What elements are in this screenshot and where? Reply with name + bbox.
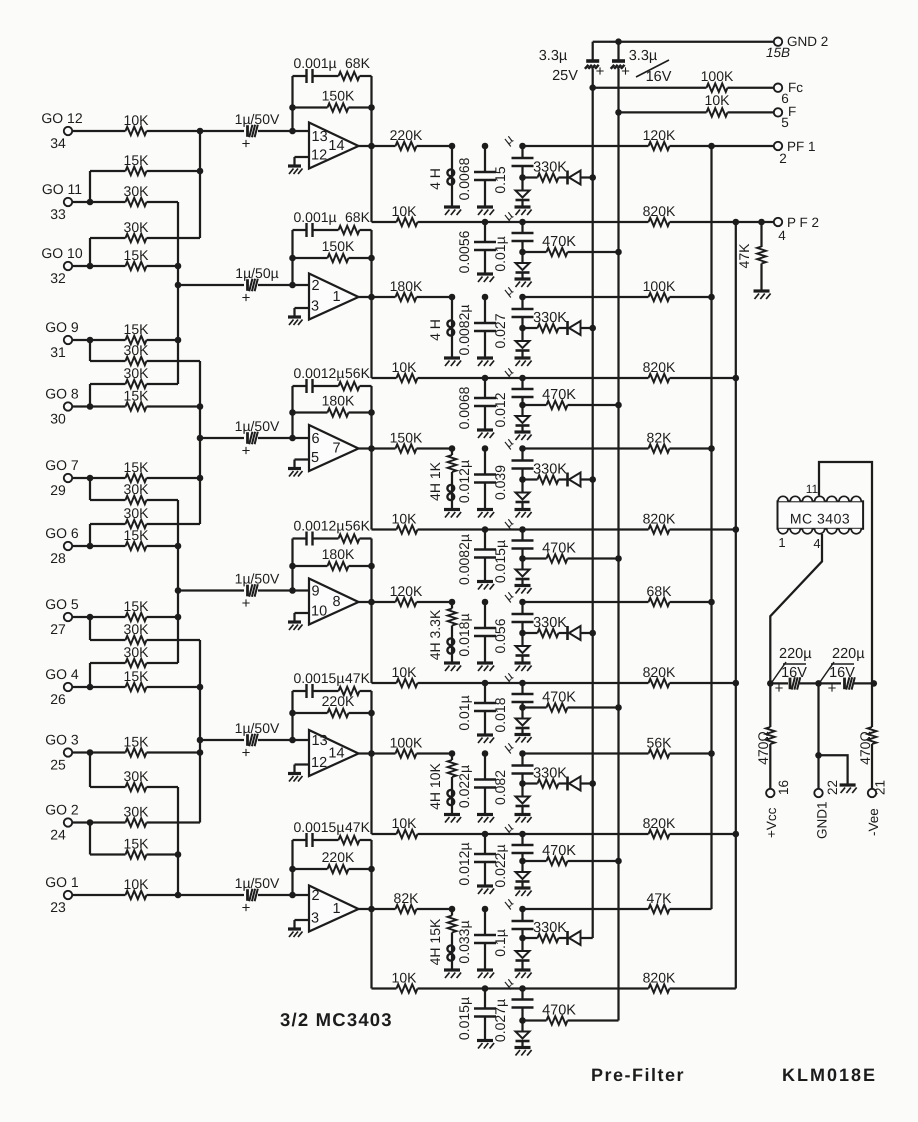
svg-text:33: 33 (50, 206, 66, 222)
wire stage 5 input row (200, 739, 244, 741)
svg-text:25: 25 (50, 757, 66, 773)
feedback loop left wire stage 2 (291, 230, 293, 285)
ground (shunt cap mid row 6) (477, 1041, 494, 1049)
resistor 330K stage 1 (523, 160, 568, 182)
svg-text:4H 10K: 4H 10K (427, 762, 443, 809)
svg-text:GO 5: GO 5 (45, 596, 79, 612)
diode (330K branch) stage 1 (559, 171, 593, 185)
resistor 470Ω (-Vee) (857, 683, 876, 789)
wire GO 5 to junction (72, 616, 90, 618)
inductor 4H branch stage 6 (427, 906, 456, 970)
wire cap to op-amp stage 1 (258, 128, 308, 135)
wire jog GO 3 to 30K row (90, 753, 126, 788)
feedback loop right wire stage 4 (370, 539, 372, 603)
wire stage 6 row to PF1 bus (523, 908, 649, 910)
junction 470K bus mid row 3 (615, 555, 622, 562)
ground (inductor stage 4) (444, 663, 461, 671)
wire op-amp output stage 3 (359, 445, 396, 452)
input terminal GO 4 (pin 26) (45, 666, 79, 707)
input terminal GO 10 (pin 32) (41, 245, 82, 286)
input terminal GO 8 (pin 30) (45, 386, 79, 427)
wire resistor to bus (147, 130, 201, 132)
feedback loop left wire stage 1 (291, 76, 293, 131)
svg-text:150K: 150K (390, 430, 423, 446)
capacitor 0.082 series stage 5 (492, 738, 534, 805)
input terminal GO 1 (pin 23) (45, 874, 79, 915)
wire jog GO 10 to 30K row (90, 238, 126, 266)
wire jog GO 11 to 15K row (90, 171, 126, 202)
svg-text:0.0082µ: 0.0082µ (456, 534, 472, 585)
ground (shunt cap mid row 2) (477, 430, 494, 438)
resistor 30K (GO 2) (124, 804, 150, 827)
junction stage 5 PF1 bus (708, 750, 715, 757)
ground (series branch mid row 6) (515, 1048, 532, 1056)
resistor 82K stage 6 output (394, 890, 452, 913)
wire 15K to bus (147, 545, 179, 547)
junction node GO 8 (87, 403, 94, 410)
resistor 30K (GO 8) (124, 365, 150, 388)
svg-text:47K: 47K (345, 819, 371, 835)
terminal +Vcc (pin 16) (764, 780, 791, 838)
wire op-amp output stage 1 (359, 143, 396, 150)
wire GO 2 to 30K (90, 821, 126, 823)
svg-text:0.018: 0.018 (492, 697, 508, 732)
svg-text:0.018µ: 0.018µ (456, 613, 472, 656)
capacitor 0.018 series mid row 4 (492, 668, 534, 733)
svg-text:0.012µ: 0.012µ (456, 460, 472, 503)
wire GO 10 to junction (72, 265, 90, 267)
ground (inductor stage 1) (444, 207, 461, 215)
svg-text:30K: 30K (124, 481, 150, 497)
wire GO 10 to 15K (90, 265, 126, 267)
svg-text:1µ/50V: 1µ/50V (235, 571, 280, 587)
wire jog GO 5 to 30K row (90, 617, 126, 640)
svg-text:0.0068: 0.0068 (456, 386, 472, 429)
svg-text:0.001µ: 0.001µ (294, 209, 337, 225)
diode (mid row 1) (516, 252, 530, 278)
capacitor 0.0056 shunt mid row 1 (456, 219, 496, 274)
svg-text:180K: 180K (322, 546, 355, 562)
resistor 330K stage 6 (523, 920, 568, 942)
input terminal GO 2 (pin 24) (45, 802, 79, 843)
junction node GO 3 (87, 749, 94, 756)
wire 30K to bus (147, 383, 179, 385)
wire pin 11 to -Vee rail (819, 462, 872, 683)
feedback resistor 68K stage 2 (339, 209, 372, 234)
wire op-amp 4 output to mid row (372, 602, 397, 683)
ground (shunt cap stage 6) (477, 970, 494, 978)
capacitor 0.01µ shunt mid row 4 (456, 680, 496, 735)
svg-text:GO 2: GO 2 (45, 802, 79, 818)
svg-text:0.1µ: 0.1µ (492, 929, 508, 957)
svg-text:12: 12 (311, 148, 327, 164)
svg-text:47K: 47K (647, 890, 673, 906)
svg-text:15K: 15K (124, 527, 150, 543)
diode (shunt branch) stage 5 (516, 784, 530, 815)
svg-text:0.027µ: 0.027µ (492, 999, 508, 1042)
junction mid row 5 PF2 bus (733, 831, 740, 838)
feedback capacitor 0.0015µ stage 6 (293, 819, 345, 847)
ground (inductor stage 6) (444, 970, 461, 978)
input terminal GO 5 (pin 27) (45, 596, 79, 637)
svg-text:0.01µ: 0.01µ (456, 695, 472, 730)
electrolytic capacitor 1µ/50V stage 5 (235, 720, 280, 762)
svg-text:8: 8 (332, 594, 340, 610)
svg-text:0.15: 0.15 (492, 166, 508, 193)
wire GO 1 to resistor (72, 894, 126, 896)
diode (330K branch) stage 2 (559, 321, 593, 335)
ground (series branch stage 5) (515, 815, 532, 823)
wire cap to op-amp stage 5 (258, 737, 308, 744)
svg-text:330K: 330K (533, 615, 567, 631)
junction 470K bus mid row 4 (615, 704, 622, 711)
ground (op-amp stage 5) (288, 774, 303, 782)
resistor 15K (GO 10) (124, 247, 150, 270)
diode (shunt branch) stage 1 (516, 178, 530, 208)
svg-text:30K: 30K (124, 621, 150, 637)
resistor 820K mid row 6 (643, 970, 736, 993)
svg-text:120K: 120K (643, 127, 676, 143)
stage 3 mixing bus (197, 361, 204, 524)
op-amp + input ground stub stage 2 (295, 308, 310, 316)
svg-text:16V: 16V (781, 665, 807, 681)
junction 470K bus mid row 2 (615, 402, 622, 409)
resistor 330K stage 4 (523, 615, 568, 637)
svg-text:4 H: 4 H (427, 319, 443, 341)
op-amp stage 3 (pins 6/5/7) (309, 425, 359, 471)
electrolytic capacitor 1µ/50µ stage 2 (235, 265, 278, 307)
svg-text:3: 3 (311, 299, 319, 315)
wire stage 2 row to PF1 bus (523, 296, 649, 298)
junction mid row 4 PF2 bus (733, 680, 740, 687)
feedback resistor 68K stage 1 (339, 55, 372, 80)
svg-text:27: 27 (50, 621, 66, 637)
svg-text:120K: 120K (390, 583, 423, 599)
feedback resistor 56K stage 3 (339, 365, 372, 390)
resistor 330K stage 2 (523, 310, 568, 332)
svg-text:PF 1: PF 1 (787, 139, 816, 154)
wire rail mid (799, 680, 841, 687)
wire jog GO 7 to 30K row (90, 478, 126, 500)
pin 1 label (778, 535, 785, 550)
svg-text:30K: 30K (124, 768, 150, 784)
svg-text:0.0015µ: 0.0015µ (294, 670, 345, 686)
capacitor 0.027µ series mid row 6 (492, 974, 534, 1042)
wire stage 3 row to PF1 bus (523, 447, 649, 449)
wire stage 6 input row (178, 894, 244, 896)
resistor 30K (GO 4) (124, 644, 150, 667)
svg-text:0.022µ: 0.022µ (456, 765, 472, 808)
wire op-amp output stage 4 (359, 599, 396, 606)
ground (series branch stage 2) (515, 358, 532, 366)
ground (shunt cap mid row 4) (477, 735, 494, 743)
capacitor 0.022µ shunt stage 5 (456, 750, 496, 814)
op-amp stage 4 (pins 9/10/8) (309, 579, 359, 625)
junction 470K bus mid row 1 (615, 249, 622, 256)
wire GO 5 to 15K (90, 616, 126, 618)
ground (series branch mid row 3) (515, 586, 532, 594)
resistor 10K (GO 1) (124, 876, 150, 899)
svg-text:0.039: 0.039 (492, 465, 508, 500)
svg-text:GO 10: GO 10 (41, 245, 82, 261)
svg-text:30K: 30K (124, 342, 150, 358)
svg-text:GO 9: GO 9 (45, 319, 79, 335)
ground (series branch mid row 1) (515, 279, 532, 287)
diode (330K branch) stage 4 (559, 626, 593, 640)
svg-text:820K: 820K (643, 664, 676, 680)
svg-text:10K: 10K (124, 876, 150, 892)
input terminal GO 9 (pin 31) (45, 319, 79, 360)
svg-text:0.027: 0.027 (492, 313, 508, 348)
svg-text:9: 9 (312, 584, 320, 600)
terminal GND1 (pin 22) (814, 780, 840, 839)
feedback resistor 150K stage 2 (289, 238, 375, 262)
capacitor 0.039 series stage 3 (492, 434, 534, 500)
feedback loop left wire stage 4 (291, 539, 293, 591)
resistor 82K stage 3 to PF1 (647, 430, 712, 453)
feedback resistor 47K stage 5 (339, 670, 372, 695)
wire 15K to bus (147, 686, 201, 688)
capacitor 0.022µ series mid row 5 (492, 819, 534, 888)
svg-text:1µ/50V: 1µ/50V (235, 875, 280, 891)
capacitor 220µ/16V (Vee) (820, 646, 865, 697)
svg-text:10K: 10K (392, 664, 418, 680)
svg-text:10K: 10K (705, 92, 731, 108)
resistor 56K stage 5 to PF1 (647, 735, 712, 758)
junction diode bus stage 5 (589, 780, 596, 787)
svg-text:15K: 15K (124, 321, 150, 337)
svg-text:470K: 470K (542, 843, 576, 859)
svg-text:15K: 15K (124, 598, 150, 614)
svg-text:F: F (788, 104, 796, 119)
pin 11 label (806, 482, 819, 496)
svg-text:2: 2 (779, 151, 787, 166)
wire Fc row (593, 87, 707, 89)
stage 5 mixing bus (197, 640, 204, 823)
electrolytic capacitor 1µ/50V stage 6 (235, 875, 280, 917)
svg-text:5: 5 (311, 450, 319, 466)
svg-text:150K: 150K (322, 238, 355, 254)
resistor 47K stage 6 to PF1 (647, 890, 712, 913)
junction node GO 7 (87, 475, 94, 482)
ground (op-amp stage 3) (288, 469, 303, 477)
resistor 330K stage 5 (523, 766, 568, 788)
feedback resistor 180K stage 4 (289, 546, 375, 570)
pin 4 label (813, 536, 820, 551)
wire cap to op-amp stage 2 (258, 282, 308, 289)
svg-text:23: 23 (50, 899, 66, 915)
ground (op-amp stage 2) (288, 317, 303, 325)
svg-text:470K: 470K (542, 234, 576, 250)
resistor 30K (GO 7) (124, 481, 150, 504)
svg-text:Fc: Fc (788, 80, 803, 95)
wire GO 8 to 15K (90, 405, 126, 407)
svg-text:30K: 30K (124, 644, 150, 660)
svg-text:+: + (242, 595, 251, 612)
svg-text:+: + (242, 900, 251, 917)
svg-text:56K: 56K (345, 518, 371, 534)
diode (mid row 2) (516, 405, 530, 431)
capacitor 220µ/16V (Vcc) (772, 646, 812, 697)
feedback resistor 56K stage 4 (339, 518, 372, 543)
capacitor 0.0068 shunt mid row 2 (456, 375, 496, 430)
svg-text:470K: 470K (542, 387, 576, 403)
capacitor 0.012µ shunt mid row 5 (456, 831, 496, 886)
PF1 bus (710, 146, 712, 909)
svg-text:68K: 68K (345, 209, 371, 225)
resistor 10K mid row 4 (392, 664, 649, 687)
ground (shunt cap mid row 5) (477, 886, 494, 894)
capacitor 0.1µ series stage 6 (492, 894, 534, 957)
wire GND2 row (593, 41, 774, 43)
resistor 15K (GO 3) (124, 734, 150, 757)
svg-text:220K: 220K (322, 849, 355, 865)
wire GO 12 to resistor (72, 130, 126, 132)
feedback resistor 180K stage 3 (289, 393, 375, 417)
wire 15K to bus (147, 616, 179, 618)
op-amp stage 6 (pins 2/3/1) (309, 886, 359, 932)
inductor 4H branch stage 4 (427, 599, 456, 663)
feedback capacitor 0.001µ stage 1 (293, 55, 339, 83)
svg-text:3: 3 (311, 911, 319, 927)
capacitor 0.0068 shunt stage 1 (456, 143, 496, 207)
wire op-amp 5 output to mid row (372, 754, 397, 835)
resistor 120K stage 4 output (390, 583, 452, 606)
svg-text:+: + (596, 63, 605, 80)
label Pre-Filter (591, 1065, 685, 1085)
electrolytic capacitor 1µ/50V stage 1 (235, 111, 280, 153)
op-amp + input ground stub stage 4 (295, 613, 310, 621)
svg-text:220µ: 220µ (832, 646, 865, 662)
svg-text:10K: 10K (392, 815, 418, 831)
svg-text:0.056: 0.056 (492, 618, 508, 653)
feedback resistor 220K stage 6 (289, 849, 375, 873)
resistor 30K (GO 11) (124, 183, 150, 206)
svg-text:330K: 330K (533, 766, 567, 782)
wire GO 11 to 30K (90, 201, 126, 203)
ground (series branch stage 1) (515, 207, 532, 215)
resistor 10K mid row 3 (392, 511, 649, 534)
wire 30K to bus (147, 786, 179, 788)
feedback loop left wire stage 6 (291, 840, 293, 895)
wire 30K to bus (147, 499, 179, 501)
svg-text:0.082: 0.082 (492, 770, 508, 805)
wire pin 4 to +Vcc rail (770, 534, 822, 683)
inductor 4H branch stage 5 (427, 750, 456, 814)
wire jog GO 2 to 15K row (90, 823, 126, 855)
svg-text:470K: 470K (542, 690, 576, 706)
junction node GO 4 (87, 684, 94, 691)
svg-text:21: 21 (873, 780, 888, 795)
svg-text:P F 2: P F 2 (787, 215, 819, 230)
svg-text:GO 12: GO 12 (41, 110, 82, 126)
svg-text:12: 12 (311, 755, 327, 771)
junction stage 3 PF1 bus (708, 445, 715, 452)
junction node GO 5 (87, 614, 94, 621)
svg-text:31: 31 (50, 344, 66, 360)
ground (GND1) (840, 785, 857, 793)
diode (shunt branch) stage 3 (516, 480, 530, 510)
feedback loop left wire stage 5 (291, 691, 293, 740)
ground (series branch mid row 5) (515, 888, 532, 896)
wire op-amp 2 output to mid row (372, 297, 397, 378)
op-amp stage 5 (pins 13/12/14) (309, 730, 359, 776)
wire GO 11 to junction (72, 201, 90, 203)
svg-text:GND 2: GND 2 (787, 34, 828, 49)
feedback capacitor 0.0012µ stage 3 (293, 365, 345, 393)
stage 6 mixing bus (175, 787, 182, 895)
svg-text:10K: 10K (392, 203, 418, 219)
op-amp + input ground stub stage 5 (295, 765, 310, 773)
svg-text:13: 13 (312, 733, 328, 749)
wire stage 2 input row (178, 284, 244, 286)
resistor 820K mid row 3 (643, 511, 736, 534)
svg-text:+Vcc: +Vcc (764, 807, 779, 838)
wire +Vcc rail (767, 680, 788, 687)
wire 30K to bus (147, 639, 201, 641)
wire stage 5 row to PF1 bus (523, 752, 649, 754)
junction stage-6 bus / input row (175, 892, 182, 899)
ground (op-amp stage 1) (288, 166, 303, 174)
svg-text:22: 22 (825, 780, 840, 795)
ground (shunt cap mid row 1) (477, 274, 494, 282)
svg-text:30K: 30K (124, 365, 150, 381)
svg-text:82K: 82K (647, 430, 673, 446)
capacitor 3.3µ/25V on diode bus (539, 48, 605, 84)
wire GO 9 to 15K (90, 339, 126, 341)
svg-text:820K: 820K (643, 203, 676, 219)
svg-text:1µ/50V: 1µ/50V (235, 720, 280, 736)
wire 30K to bus (147, 360, 201, 362)
svg-text:15K: 15K (124, 734, 150, 750)
svg-text:24: 24 (50, 827, 66, 843)
capacitor 0.015µ shunt mid row 6 (456, 985, 496, 1040)
resistor 10K mid row 1 (392, 203, 649, 226)
resistor 10K mid row 2 (392, 359, 649, 382)
wire jog GO 9 to 30K row (90, 340, 126, 361)
svg-text:GO 6: GO 6 (45, 525, 79, 541)
feedback capacitor 0.0015µ stage 5 (293, 670, 345, 698)
svg-text:+: + (828, 680, 837, 697)
capacitor 0.033µ shunt stage 6 (456, 906, 496, 970)
inductor 4H branch stage 1 (427, 143, 455, 207)
wire 15K to bus (147, 853, 179, 855)
wire op-amp 1 output to mid row (372, 146, 397, 222)
svg-text:0.0082µ: 0.0082µ (456, 305, 472, 356)
junction node GO 11 (87, 199, 94, 206)
resistor 30K (GO 10) (124, 219, 150, 242)
resistor 470K mid row 2 (523, 387, 619, 409)
svg-text:3/2 MC3403: 3/2 MC3403 (280, 1009, 393, 1030)
capacitor 0.056 series stage 4 (492, 587, 534, 654)
resistor 15K (GO 4) (124, 668, 150, 691)
svg-text:5: 5 (781, 115, 789, 130)
svg-text:16: 16 (776, 780, 791, 795)
feedback resistor 220K stage 5 (289, 693, 375, 717)
svg-text:28: 28 (50, 550, 66, 566)
svg-text:330K: 330K (533, 920, 567, 936)
svg-text:56K: 56K (647, 735, 673, 751)
svg-text:820K: 820K (643, 970, 676, 986)
svg-text:30: 30 (50, 411, 66, 427)
ground (series branch stage 3) (515, 510, 532, 518)
svg-text:GO 11: GO 11 (42, 181, 82, 197)
svg-text:25V: 25V (552, 68, 578, 84)
svg-text:820K: 820K (643, 359, 676, 375)
svg-text:15K: 15K (124, 459, 150, 475)
ground (series branch mid row 4) (515, 735, 532, 743)
op-amp + input ground stub stage 3 (295, 460, 310, 468)
